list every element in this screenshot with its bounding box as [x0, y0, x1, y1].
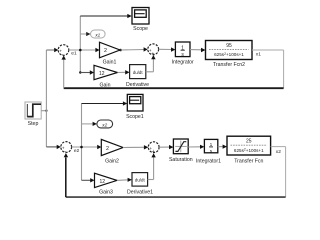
- gain Gain: [94, 65, 118, 88]
- wire branch column 2: [80, 104, 83, 181]
- svg-text:12: 12: [99, 71, 105, 77]
- wire to Scope1: [82, 101, 128, 105]
- sum S3: [61, 142, 72, 155]
- wire e2: [72, 145, 102, 149]
- gain Gain3: [95, 173, 118, 195]
- derivative block Derivative: [126, 65, 149, 89]
- wire to goto x2: [82, 122, 97, 126]
- wire to goto x1: [80, 32, 90, 36]
- svg-text:du/dt: du/dt: [135, 178, 146, 183]
- wire Gain to Derivative: [118, 70, 130, 74]
- svg-text:25: 25: [246, 139, 252, 145]
- wire Gain2 to sum S4: [123, 145, 148, 149]
- goto tag x2: [97, 120, 113, 128]
- wire feedback horizontal bottom loop: [66, 196, 286, 198]
- wire Integrator1 to Transfer Fcn: [218, 145, 227, 149]
- sum S1: [58, 45, 69, 58]
- wire feedback horizontal top loop: [64, 87, 284, 89]
- gain Gain1: [100, 42, 122, 65]
- svg-text:Gain2: Gain2: [105, 158, 119, 164]
- wire feedback right vertical bottom loop: [285, 147, 287, 198]
- wire step output: [41, 110, 47, 112]
- svg-text:Scope: Scope: [133, 26, 148, 32]
- svg-text:Transfer Fcn2: Transfer Fcn2: [213, 62, 245, 68]
- svg-text:x1: x1: [256, 52, 261, 58]
- svg-text:e2: e2: [74, 148, 80, 154]
- svg-text:95: 95: [226, 43, 232, 49]
- wire e1: [69, 48, 100, 52]
- sum S4: [148, 142, 159, 155]
- svg-text:Gain1: Gain1: [103, 59, 117, 65]
- svg-text:du/dt: du/dt: [133, 70, 144, 75]
- svg-text:Gain3: Gain3: [99, 190, 113, 196]
- svg-text:Scope1: Scope1: [126, 114, 144, 120]
- svg-text:x2: x2: [276, 149, 281, 155]
- sum S2: [148, 44, 159, 57]
- wire step to sum S3: [46, 145, 60, 149]
- svg-text:12: 12: [100, 179, 106, 185]
- wire branch column: [79, 16, 82, 74]
- svg-text:Integrator1: Integrator1: [196, 158, 221, 164]
- derivative block Derivative1: [127, 173, 153, 196]
- gain Gain2: [101, 139, 123, 164]
- wire to gain Gain3: [82, 178, 95, 182]
- svg-text:Transfer Fcn: Transfer Fcn: [234, 158, 263, 164]
- wire sum S2 to Integrator: [159, 47, 176, 51]
- svg-text:Integrator: Integrator: [172, 60, 194, 66]
- wire Derivative1 to sum S4: [148, 153, 156, 179]
- wire to gain Gain: [80, 70, 94, 74]
- scope Scope: [132, 8, 149, 33]
- svg-text:Derivative1: Derivative1: [127, 190, 153, 196]
- transfer function Transfer Fcn2: [206, 41, 253, 69]
- integrator Integrator: [172, 42, 194, 66]
- scope Scope1: [126, 94, 144, 120]
- wire feedback to sum S1: [62, 55, 66, 88]
- wire Gain3 to Derivative1: [117, 178, 132, 182]
- wire Derivative to sum S2: [146, 55, 156, 72]
- wire Saturation to Integrator1: [188, 145, 204, 149]
- wire x1 output: [252, 49, 284, 51]
- svg-text:2: 2: [106, 146, 109, 152]
- saturation block Saturation: [169, 139, 193, 163]
- transfer function Transfer Fcn: [227, 136, 271, 164]
- wire step column vertical: [45, 50, 47, 147]
- wire step to sum S1: [46, 48, 58, 52]
- wire sum S4 to Saturation: [159, 145, 173, 149]
- svg-text:x2: x2: [101, 122, 107, 127]
- wire x2 output: [271, 146, 286, 148]
- step source Step: [25, 102, 41, 127]
- integrator Integrator1: [196, 139, 221, 164]
- svg-text:Saturation: Saturation: [169, 157, 193, 163]
- svg-text:x1: x1: [94, 32, 100, 37]
- svg-text:625s2+100s+1: 625s2+100s+1: [234, 147, 264, 152]
- wire to Scope: [80, 14, 132, 18]
- wire Integrator to Transfer Fcn2: [190, 48, 206, 52]
- wire Gain1 to sum S2: [121, 47, 148, 51]
- svg-text:Gain: Gain: [100, 83, 111, 89]
- svg-text:Step: Step: [28, 121, 39, 127]
- svg-text:Derivative: Derivative: [126, 82, 149, 88]
- wire feedback right vertical top loop: [283, 50, 285, 88]
- goto tag x1: [91, 30, 106, 38]
- wire feedback to sum S3: [64, 153, 68, 197]
- svg-text:625s2+100s+1: 625s2+100s+1: [214, 52, 244, 57]
- svg-text:2: 2: [104, 48, 107, 54]
- svg-text:e1: e1: [71, 51, 77, 57]
